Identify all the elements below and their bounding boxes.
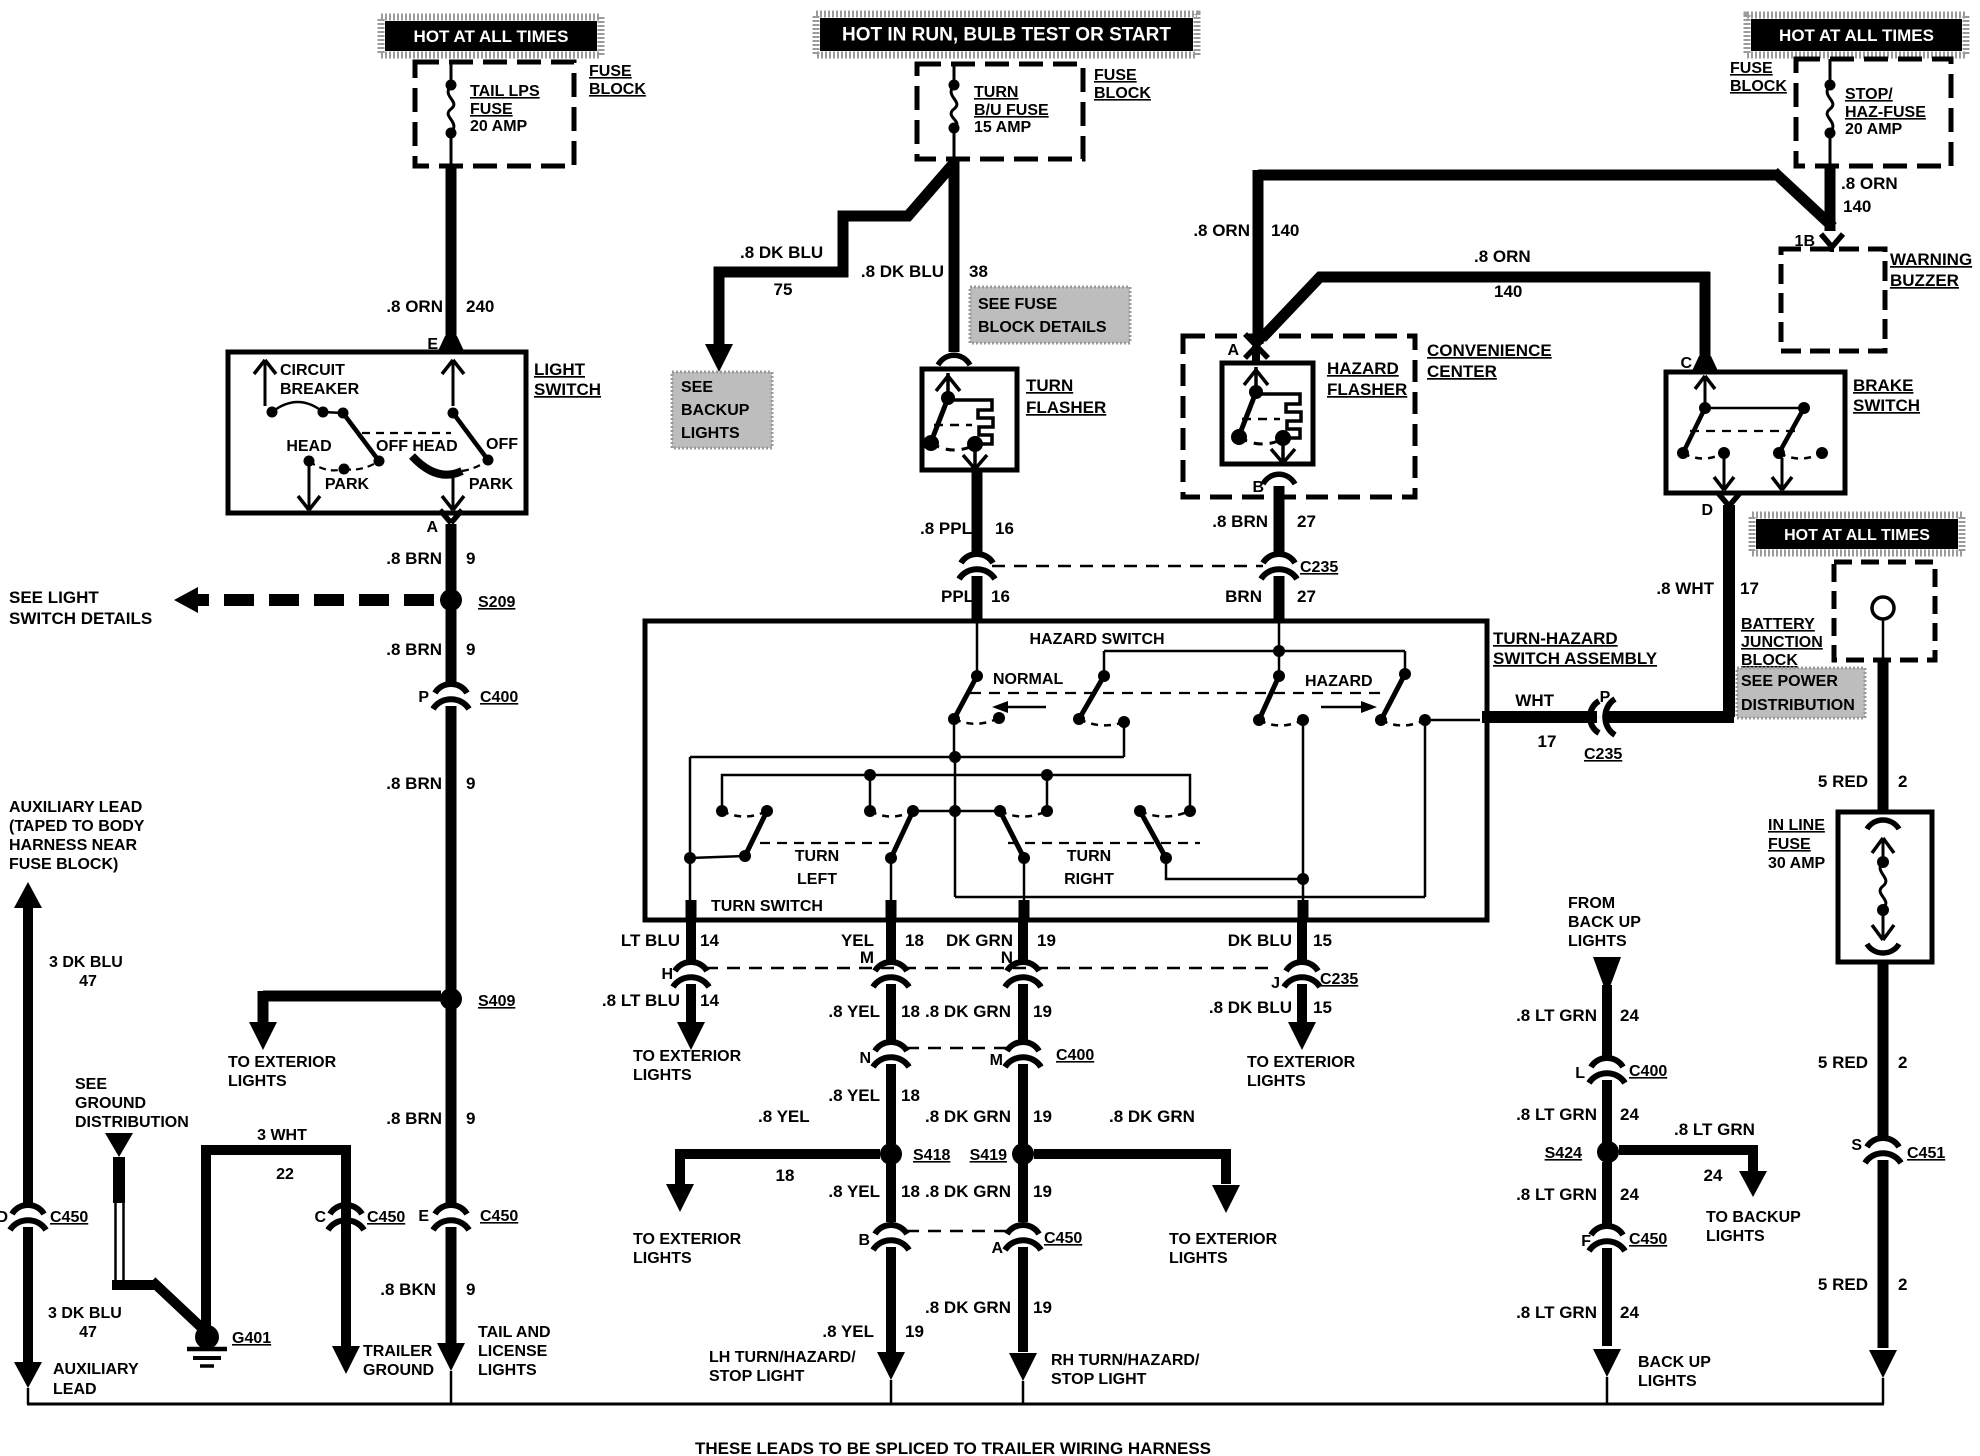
svg-text:AUXILIARY: AUXILIARY	[53, 1361, 139, 1378]
svg-text:TO EXTERIOR: TO EXTERIOR	[1169, 1231, 1278, 1248]
wire .8 LT GRN 24 branch to backup lights	[1619, 1145, 1753, 1155]
note SEE POWER DISTRIBUTION	[1737, 668, 1865, 718]
svg-text:HOT AT ALL TIMES: HOT AT ALL TIMES	[1784, 527, 1930, 544]
svg-text:LIGHTS: LIGHTS	[681, 425, 740, 442]
dashed connector line C235 row	[705, 967, 1275, 970]
wire .8 DK GRN 19 to RH stop light	[1018, 1247, 1028, 1352]
svg-text:3 WHT: 3 WHT	[257, 1127, 307, 1144]
wire .8 LT GRN 24 (C400 to S424)	[1602, 1080, 1612, 1144]
svg-text:C450: C450	[367, 1209, 405, 1226]
left arrow (normal)	[1000, 706, 1046, 709]
wire .8 LT GRN 24 to back up lights	[1602, 1248, 1612, 1346]
turn switch bus B	[722, 775, 1190, 811]
svg-text:S424: S424	[1545, 1145, 1582, 1162]
svg-text:TO EXTERIOR: TO EXTERIOR	[633, 1231, 742, 1248]
turn right blade	[1140, 811, 1166, 858]
svg-text:15 AMP: 15 AMP	[974, 119, 1032, 136]
dashed arrow SEE LIGHT SWITCH DETAILS	[196, 594, 434, 606]
wire 5 RED 2 (fuse to C451)	[1878, 960, 1889, 1138]
turn left blade	[745, 811, 767, 856]
trailer splice rail	[27, 1403, 1884, 1406]
fuse block (TURN B/U FUSE)	[917, 64, 1083, 159]
svg-text:14: 14	[700, 991, 719, 1010]
turn switch contacts	[716, 805, 728, 817]
svg-text:.8 LT GRN: .8 LT GRN	[1516, 1105, 1597, 1124]
in-line fuse box	[1838, 812, 1932, 962]
svg-text:GROUND: GROUND	[75, 1095, 146, 1112]
svg-text:FUSE: FUSE	[1768, 836, 1811, 853]
svg-text:GROUND: GROUND	[363, 1362, 434, 1379]
svg-text:TO EXTERIOR: TO EXTERIOR	[228, 1054, 337, 1071]
svg-text:C235: C235	[1584, 746, 1622, 763]
svg-text:24: 24	[1620, 1185, 1639, 1204]
turn switch top bus	[690, 756, 1124, 759]
svg-text:LIGHT: LIGHT	[534, 360, 586, 379]
svg-text:9: 9	[466, 1280, 475, 1299]
trailer ground arrow	[332, 1346, 360, 1374]
svg-text:17: 17	[1538, 732, 1557, 751]
svg-text:S: S	[1851, 1137, 1862, 1154]
svg-text:SWITCH: SWITCH	[1853, 396, 1920, 415]
svg-text:TURN-HAZARD: TURN-HAZARD	[1493, 629, 1618, 648]
ground G401	[195, 1325, 219, 1349]
wire .8 LT GRN 24 (S424 to C450)	[1602, 1162, 1612, 1224]
svg-text:BATTERY: BATTERY	[1741, 616, 1815, 633]
fuse TURN B/U 15 AMP	[953, 64, 956, 80]
hazard feed bus	[1104, 650, 1405, 653]
svg-text:DISTRIBUTION: DISTRIBUTION	[75, 1114, 189, 1131]
svg-text:15: 15	[1313, 931, 1332, 950]
connector C235 pin (turn flasher)	[961, 554, 993, 563]
svg-text:SEE: SEE	[75, 1076, 107, 1093]
dashed connector line C235	[992, 565, 1263, 568]
svg-text:S418: S418	[913, 1147, 950, 1164]
wire .8 DK BLU 75 branch to backup lights	[719, 163, 954, 344]
svg-text:TAIL AND: TAIL AND	[478, 1324, 551, 1341]
svg-text:SWITCH DETAILS: SWITCH DETAILS	[9, 609, 152, 628]
wire hazard output to WHT	[1424, 720, 1427, 897]
hazard switch dashed guide	[970, 692, 1382, 694]
svg-text:L: L	[1575, 1065, 1585, 1082]
svg-text:.8 DK GRN: .8 DK GRN	[925, 1107, 1011, 1126]
svg-text:.8 DK GRN: .8 DK GRN	[925, 1182, 1011, 1201]
svg-text:HAZARD: HAZARD	[1305, 673, 1373, 690]
banner HOT AT ALL TIMES (right mid)	[1752, 515, 1962, 553]
svg-text:19: 19	[1033, 1107, 1052, 1126]
svg-text:2: 2	[1898, 772, 1907, 791]
svg-text:47: 47	[79, 973, 97, 990]
svg-text:LIGHTS: LIGHTS	[633, 1250, 692, 1267]
orange feed wire from stop/haz fuse	[1258, 170, 1779, 181]
svg-text:LIGHTS: LIGHTS	[1169, 1250, 1228, 1267]
in-line fuse symbol	[1867, 820, 1899, 829]
svg-text:M: M	[860, 948, 874, 967]
svg-text:.8 PPL: .8 PPL	[920, 519, 972, 538]
svg-text:IN LINE: IN LINE	[1768, 817, 1825, 834]
note SEE BACKUP LIGHTS	[672, 372, 772, 448]
svg-text:(TAPED TO BODY: (TAPED TO BODY	[9, 818, 145, 835]
svg-text:LH TURN/HAZARD/: LH TURN/HAZARD/	[709, 1349, 856, 1366]
svg-text:BUZZER: BUZZER	[1890, 271, 1959, 290]
svg-text:.8 BRN: .8 BRN	[386, 1109, 442, 1128]
wire .8 LT BLU 14	[686, 984, 696, 1022]
svg-text:HOT AT ALL TIMES: HOT AT ALL TIMES	[1779, 26, 1934, 45]
wire 3 WHT 22	[201, 1155, 211, 1328]
svg-text:DK BLU: DK BLU	[1228, 931, 1292, 950]
svg-text:16: 16	[995, 519, 1014, 538]
svg-text:TURN SWITCH: TURN SWITCH	[711, 898, 823, 915]
brake switch contacts	[1704, 376, 1707, 404]
svg-text:S209: S209	[478, 594, 515, 611]
wire PPL 16 to turn-hazard switch	[972, 576, 983, 621]
svg-text:.8 LT GRN: .8 LT GRN	[1516, 1006, 1597, 1025]
dashed connector line C450 row	[906, 1230, 1008, 1233]
svg-text:.8 ORN: .8 ORN	[1474, 247, 1531, 266]
wire exits from switch box	[686, 900, 697, 920]
svg-text:BLOCK: BLOCK	[1094, 85, 1151, 102]
svg-text:.8 YEL: .8 YEL	[822, 1322, 874, 1341]
fuse block (STOP/HAZ-FUSE)	[1796, 59, 1951, 166]
wire .8 BRN 9 (C400 to S409)	[446, 706, 457, 990]
svg-text:17: 17	[1740, 579, 1759, 598]
hazard switch second pole	[1103, 651, 1106, 676]
svg-text:18: 18	[905, 931, 924, 950]
battery junction block box	[1834, 562, 1935, 660]
svg-text:SEE FUSE: SEE FUSE	[978, 296, 1057, 313]
turn switch inner frame	[689, 757, 692, 918]
svg-text:5 RED: 5 RED	[1818, 1053, 1868, 1072]
convenience center box	[1183, 336, 1415, 497]
wire .8 BRN 27	[1274, 486, 1285, 552]
svg-text:C400: C400	[1056, 1047, 1094, 1064]
svg-text:D: D	[1701, 502, 1713, 519]
svg-text:LT BLU: LT BLU	[621, 931, 680, 950]
wire .8 YEL 18 branch to exterior lights	[680, 1149, 880, 1159]
svg-text:19: 19	[1033, 1182, 1052, 1201]
svg-text:LIGHTS: LIGHTS	[1568, 933, 1627, 950]
svg-text:19: 19	[1033, 1002, 1052, 1021]
svg-text:RH TURN/HAZARD/: RH TURN/HAZARD/	[1051, 1352, 1200, 1369]
banner HOT AT ALL TIMES (right top)	[1747, 15, 1966, 55]
svg-text:24: 24	[1620, 1006, 1639, 1025]
wire .8 YEL 18 (C235 to C400)	[886, 984, 896, 1040]
svg-text:BRAKE: BRAKE	[1853, 376, 1913, 395]
wire .8 DK BLU 38 (fuse to turn flasher)	[949, 157, 960, 352]
auxiliary lead wire 3 DK BLU 47	[14, 882, 42, 908]
wire .8 DK GRN 19 (C235 to C400)	[1018, 984, 1028, 1040]
svg-text:C450: C450	[480, 1208, 518, 1225]
svg-text:BLOCK: BLOCK	[1730, 78, 1787, 95]
svg-text:C235: C235	[1320, 971, 1358, 988]
svg-text:PARK: PARK	[469, 476, 514, 493]
svg-text:SWITCH ASSEMBLY: SWITCH ASSEMBLY	[1493, 649, 1658, 668]
svg-text:BREAKER: BREAKER	[280, 381, 360, 398]
svg-text:LIGHTS: LIGHTS	[1247, 1073, 1306, 1090]
hazard flasher box	[1222, 363, 1313, 464]
turn switch feed	[954, 757, 957, 897]
svg-text:H: H	[661, 966, 673, 983]
wire .8 BKN 9 (C450 to tail lights)	[446, 1227, 457, 1344]
dk grn blade	[1000, 811, 1024, 858]
svg-text:5 RED: 5 RED	[1818, 1275, 1868, 1294]
svg-text:BLOCK DETAILS: BLOCK DETAILS	[978, 319, 1107, 336]
svg-text:.8 LT GRN: .8 LT GRN	[1674, 1120, 1755, 1139]
svg-text:18: 18	[901, 1182, 920, 1201]
svg-text:HEAD: HEAD	[412, 438, 457, 455]
splice S418	[880, 1143, 902, 1165]
light switch right pole	[452, 360, 455, 406]
wire to ground distribution	[105, 1133, 133, 1157]
svg-text:9: 9	[466, 549, 475, 568]
svg-text:.8 DK BLU: .8 DK BLU	[740, 243, 823, 262]
svg-text:HAZARD: HAZARD	[1327, 359, 1399, 378]
svg-text:22: 22	[276, 1166, 294, 1183]
wire .8 YEL 18 (C400 to S418)	[886, 1064, 896, 1144]
turn flasher box	[922, 369, 1017, 470]
svg-text:LIGHTS: LIGHTS	[633, 1067, 692, 1084]
hazard switch output pole	[1404, 651, 1407, 674]
svg-text:3 DK BLU: 3 DK BLU	[48, 1305, 122, 1322]
svg-text:27: 27	[1297, 512, 1316, 531]
svg-text:75: 75	[774, 280, 793, 299]
svg-text:RIGHT: RIGHT	[1064, 871, 1114, 888]
svg-text:19: 19	[1037, 931, 1056, 950]
connector C235 pin N	[1007, 962, 1039, 971]
warning buzzer box	[1781, 249, 1885, 351]
svg-text:HAZ-FUSE: HAZ-FUSE	[1845, 104, 1926, 121]
svg-text:HAZARD SWITCH: HAZARD SWITCH	[1029, 631, 1164, 648]
svg-text:.8 ORN: .8 ORN	[1841, 174, 1898, 193]
wire .8 ORN 140 (fuse to buzzer)	[1825, 164, 1836, 231]
svg-text:24: 24	[1620, 1303, 1639, 1322]
orange wire to brake switch	[1262, 277, 1710, 338]
wire LT BLU 14	[686, 918, 696, 960]
svg-text:TO BACKUP: TO BACKUP	[1706, 1209, 1801, 1226]
svg-text:PARK: PARK	[325, 476, 370, 493]
svg-text:140: 140	[1843, 197, 1871, 216]
svg-text:LIGHTS: LIGHTS	[1638, 1373, 1697, 1390]
svg-text:A: A	[991, 1240, 1003, 1257]
svg-text:16: 16	[991, 587, 1010, 606]
svg-text:FLASHER: FLASHER	[1026, 398, 1106, 417]
wire .8 WHT 17 up to brake switch	[1723, 505, 1735, 717]
svg-text:N: N	[859, 1050, 871, 1067]
svg-text:.8 LT GRN: .8 LT GRN	[1516, 1185, 1597, 1204]
svg-text:9: 9	[466, 774, 475, 793]
fuse TAIL LPS 20 AMP	[450, 62, 453, 80]
svg-text:3 DK BLU: 3 DK BLU	[49, 954, 123, 971]
svg-text:FLASHER: FLASHER	[1327, 380, 1407, 399]
svg-text:SEE LIGHT: SEE LIGHT	[9, 588, 99, 607]
svg-text:HARNESS NEAR: HARNESS NEAR	[9, 837, 137, 854]
svg-text:C235: C235	[1300, 559, 1338, 576]
svg-text:.8 YEL: .8 YEL	[828, 1182, 880, 1201]
hazard switch normal pole	[976, 621, 979, 676]
svg-text:D: D	[0, 1209, 8, 1226]
svg-text:BACK UP: BACK UP	[1568, 914, 1641, 931]
svg-text:DISTRIBUTION: DISTRIBUTION	[1741, 697, 1855, 714]
svg-text:TRAILER: TRAILER	[363, 1343, 433, 1360]
svg-text:C450: C450	[1044, 1230, 1082, 1247]
turn switch dashed guides	[760, 842, 895, 844]
svg-text:HOT AT ALL TIMES: HOT AT ALL TIMES	[414, 27, 569, 46]
svg-text:18: 18	[901, 1086, 920, 1105]
svg-text:CIRCUIT: CIRCUIT	[280, 362, 345, 379]
svg-text:.8 DK GRN: .8 DK GRN	[925, 1002, 1011, 1021]
svg-text:WHT: WHT	[1515, 691, 1554, 710]
svg-text:HOT IN RUN, BULB TEST OR START: HOT IN RUN, BULB TEST OR START	[842, 25, 1171, 46]
svg-text:9: 9	[466, 640, 475, 659]
wire 5 RED 2 (C451 down)	[1878, 1160, 1889, 1348]
svg-text:B/U FUSE: B/U FUSE	[974, 102, 1049, 119]
svg-text:TURN: TURN	[795, 848, 839, 865]
svg-text:24: 24	[1620, 1105, 1639, 1124]
svg-text:.8 LT BLU: .8 LT BLU	[602, 991, 680, 1010]
svg-text:C451: C451	[1907, 1145, 1945, 1162]
svg-text:E: E	[418, 1208, 429, 1225]
splice S409	[440, 988, 462, 1010]
svg-text:P: P	[418, 689, 429, 706]
svg-text:TURN: TURN	[1067, 848, 1111, 865]
svg-text:LICENSE: LICENSE	[478, 1343, 548, 1360]
svg-text:TURN: TURN	[1026, 376, 1073, 395]
dk blu feed	[1302, 720, 1305, 905]
wire .8 LT GRN 24 from backup lights	[1593, 957, 1621, 995]
svg-text:2: 2	[1898, 1275, 1907, 1294]
svg-text:.8 BRN: .8 BRN	[386, 549, 442, 568]
svg-text:FROM: FROM	[1568, 895, 1615, 912]
svg-text:FUSE BLOCK): FUSE BLOCK)	[9, 856, 118, 873]
light switch left pole	[343, 413, 379, 461]
svg-text:15: 15	[1313, 998, 1332, 1017]
wire 5 RED 2 (junction to fuse)	[1878, 660, 1889, 814]
svg-text:14: 14	[700, 931, 719, 950]
wire .8 BRN 9 (A to S209)	[446, 524, 457, 592]
svg-text:18: 18	[776, 1166, 795, 1185]
svg-text:LEAD: LEAD	[53, 1381, 97, 1398]
svg-text:G401: G401	[232, 1330, 271, 1347]
svg-text:.8 BKN: .8 BKN	[380, 1280, 436, 1299]
svg-text:2: 2	[1898, 1053, 1907, 1072]
svg-text:TURN: TURN	[974, 84, 1018, 101]
svg-text:.8 ORN: .8 ORN	[386, 297, 443, 316]
wire .8 ORN 240	[446, 164, 457, 340]
right arrow (hazard)	[1321, 706, 1365, 709]
svg-text:TO EXTERIOR: TO EXTERIOR	[633, 1048, 742, 1065]
svg-text:SEE POWER: SEE POWER	[1741, 673, 1838, 690]
svg-text:C400: C400	[1629, 1063, 1667, 1080]
svg-text:BACKUP: BACKUP	[681, 402, 750, 419]
svg-text:C400: C400	[480, 689, 518, 706]
svg-text:CONVENIENCE: CONVENIENCE	[1427, 341, 1552, 360]
svg-text:19: 19	[905, 1322, 924, 1341]
svg-text:M: M	[990, 1052, 1003, 1069]
svg-text:THESE LEADS TO BE SPLICED TO T: THESE LEADS TO BE SPLICED TO TRAILER WIR…	[695, 1439, 1211, 1456]
svg-text:BRN: BRN	[1225, 587, 1262, 606]
svg-text:.8 DK BLU: .8 DK BLU	[1209, 998, 1292, 1017]
svg-text:.8 WHT: .8 WHT	[1656, 579, 1714, 598]
svg-text:SWITCH: SWITCH	[534, 380, 601, 399]
fuse STOP/HAZ 20 AMP	[1829, 59, 1832, 80]
brake switch box	[1666, 372, 1845, 493]
svg-text:.8 YEL: .8 YEL	[828, 1002, 880, 1021]
svg-text:.8 YEL: .8 YEL	[828, 1086, 880, 1105]
splice S209	[440, 589, 462, 611]
svg-text:S419: S419	[970, 1147, 1007, 1164]
svg-text:BLOCK: BLOCK	[589, 81, 646, 98]
svg-text:LIGHTS: LIGHTS	[478, 1362, 537, 1379]
svg-text:240: 240	[466, 297, 494, 316]
turn-hazard switch assembly box	[645, 621, 1487, 920]
svg-text:A: A	[426, 519, 438, 536]
svg-text:B: B	[858, 1232, 870, 1249]
svg-text:C: C	[314, 1209, 326, 1226]
wire .8 YEL 19 to LH stop light	[886, 1247, 896, 1352]
svg-text:FUSE: FUSE	[470, 101, 513, 118]
svg-text:S409: S409	[478, 993, 515, 1010]
wire branch to exterior lights (left)	[263, 991, 441, 1002]
svg-text:PPL: PPL	[941, 587, 974, 606]
svg-text:30 AMP: 30 AMP	[1768, 855, 1826, 872]
turn flasher connector	[938, 355, 970, 365]
svg-text:STOP LIGHT: STOP LIGHT	[709, 1368, 805, 1385]
svg-text:J: J	[1271, 975, 1280, 992]
svg-text:STOP LIGHT: STOP LIGHT	[1051, 1371, 1147, 1388]
svg-text:5 RED: 5 RED	[1818, 772, 1868, 791]
connector C235 pin M	[875, 962, 907, 971]
hazard switch hazard pole	[1278, 621, 1281, 676]
svg-text:LIGHTS: LIGHTS	[228, 1073, 287, 1090]
wire WHT 17 output	[1482, 711, 1597, 723]
svg-text:HEAD: HEAD	[286, 438, 331, 455]
svg-text:NORMAL: NORMAL	[993, 671, 1063, 688]
svg-text:.8 ORN: .8 ORN	[1193, 221, 1250, 240]
svg-text:.8 DK GRN: .8 DK GRN	[925, 1298, 1011, 1317]
svg-text:38: 38	[969, 262, 988, 281]
svg-text:SEE: SEE	[681, 379, 713, 396]
note SEE FUSE BLOCK DETAILS	[970, 287, 1130, 343]
svg-text:CENTER: CENTER	[1427, 362, 1497, 381]
svg-text:OFF: OFF	[486, 436, 518, 453]
wire .8 DK GRN 19 (C400 to S419)	[1018, 1064, 1028, 1144]
svg-text:BACK UP: BACK UP	[1638, 1354, 1711, 1371]
svg-text:27: 27	[1297, 587, 1316, 606]
svg-text:BLOCK: BLOCK	[1741, 652, 1798, 669]
svg-text:.8 BRN: .8 BRN	[1212, 512, 1268, 531]
svg-text:.8 BRN: .8 BRN	[386, 640, 442, 659]
svg-text:WARNING: WARNING	[1890, 250, 1972, 269]
svg-text:A: A	[1227, 342, 1239, 359]
circuit breaker	[264, 360, 267, 406]
svg-text:STOP/: STOP/	[1845, 86, 1893, 103]
wire .8 DK BLU 15	[1297, 984, 1307, 1022]
svg-text:.8 DK BLU: .8 DK BLU	[861, 262, 944, 281]
svg-text:C450: C450	[1629, 1231, 1667, 1248]
svg-text:FUSE: FUSE	[589, 63, 632, 80]
wire .8 YEL 18 (S418 to C450)	[886, 1164, 896, 1222]
svg-text:47: 47	[79, 1324, 97, 1341]
svg-text:JUNCTION: JUNCTION	[1741, 634, 1823, 651]
yel blade	[891, 811, 913, 858]
svg-text:TAIL LPS: TAIL LPS	[470, 83, 540, 100]
svg-text:.8 YEL: .8 YEL	[758, 1107, 810, 1126]
svg-text:OFF: OFF	[376, 438, 408, 455]
svg-text:140: 140	[1271, 221, 1299, 240]
svg-text:FUSE: FUSE	[1730, 60, 1773, 77]
dashed connector line C400 row	[906, 1047, 1008, 1050]
svg-text:TO EXTERIOR: TO EXTERIOR	[1247, 1054, 1356, 1071]
svg-text:LIGHTS: LIGHTS	[1706, 1228, 1765, 1245]
